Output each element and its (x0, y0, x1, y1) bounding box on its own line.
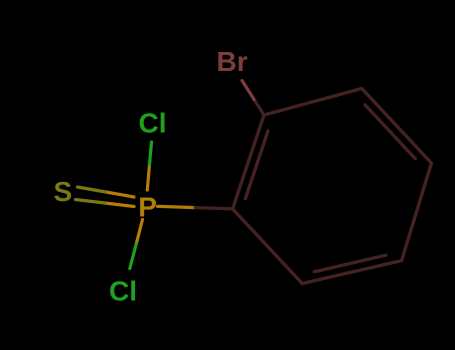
ring bond C4-C5 (402, 163, 432, 261)
ring bond C5-C6 (302, 261, 401, 284)
svg-text:P: P (138, 191, 157, 222)
ring bond C3-C4 (362, 89, 432, 164)
bond P-Cl (upper) (147, 165, 149, 190)
svg-text:Br: Br (217, 46, 248, 77)
svg-text:Cl: Cl (109, 276, 137, 307)
double bond P=S upper line (106, 192, 134, 197)
double bond P=S lower line (105, 203, 134, 207)
ring double bond inner line C1=C2 (245, 131, 268, 199)
bond P-C1 (158, 206, 196, 207)
bond C2-Br (254, 100, 264, 116)
ring bond C1-C2 (233, 115, 264, 209)
ring double bond inner line C3=C4 (365, 105, 415, 159)
bond P-Cl (lower) (136, 220, 142, 245)
svg-text:Cl: Cl (139, 107, 167, 138)
ring bond C2-C3 (264, 89, 362, 116)
ring bond C6-C1 (233, 209, 303, 284)
ring double bond inner line C5=C6 (314, 255, 386, 272)
svg-text:S: S (54, 176, 73, 207)
